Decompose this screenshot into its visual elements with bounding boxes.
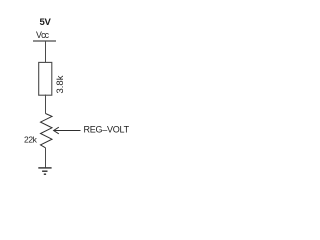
potentiometer R2 zigzag xyxy=(41,114,53,148)
svg-text:5V: 5V xyxy=(40,17,52,28)
power rail Vcc xyxy=(33,40,56,42)
wire R1 to R2 xyxy=(45,95,47,114)
resistor R1 box xyxy=(39,62,52,95)
net label Vcc xyxy=(36,30,50,40)
svg-text:22k: 22k xyxy=(24,135,38,145)
ground xyxy=(38,168,51,174)
power label 5V xyxy=(40,17,52,28)
wire rail to R1 xyxy=(45,41,47,63)
value label 22k xyxy=(24,135,38,145)
wire R2 to ground xyxy=(45,148,47,168)
svg-text:Vcc: Vcc xyxy=(36,30,50,40)
net label REG-VOLT xyxy=(84,125,130,135)
wiper arrow xyxy=(54,127,81,134)
svg-text:3.8k: 3.8k xyxy=(55,75,66,93)
value label 3.8k xyxy=(55,75,66,93)
svg-text:REG–VOLT: REG–VOLT xyxy=(84,125,130,135)
